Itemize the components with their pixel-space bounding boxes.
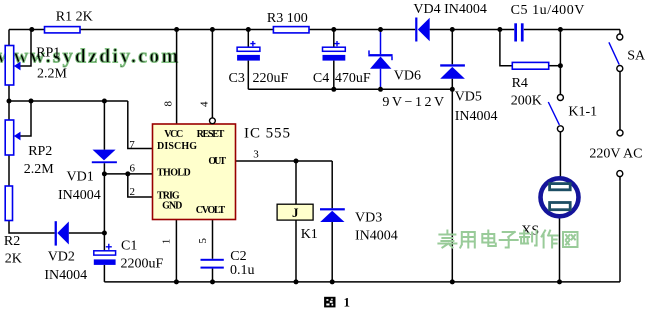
- node VD3 / bottom rail: [330, 279, 335, 284]
- diode VD1: [92, 150, 117, 164]
- svg-text:IN4004: IN4004: [455, 109, 498, 124]
- svg-text:VD6: VD6: [394, 68, 421, 83]
- svg-text:470uF: 470uF: [335, 71, 371, 86]
- svg-text:C5 1u/400V: C5 1u/400V: [511, 3, 585, 18]
- wire VD2 to node: [69, 232, 105, 234]
- node C5 right / top rail: [558, 27, 563, 32]
- svg-text:1: 1: [160, 239, 172, 245]
- svg-text:K1: K1: [301, 227, 318, 242]
- node VD6 / bus: [378, 87, 383, 92]
- watermark chinese right: [438, 231, 577, 248]
- svg-text:GND: GND: [162, 201, 182, 212]
- svg-text:220V AC: 220V AC: [589, 147, 642, 162]
- node C4 / top rail: [331, 27, 336, 32]
- wire RP2 wiper: [20, 101, 32, 136]
- svg-text:0.1u: 0.1u: [230, 263, 255, 278]
- node OUT / relay coil: [294, 159, 299, 164]
- node VD1 cathode / pin6: [102, 171, 107, 176]
- node VD1 / mid wire: [102, 99, 107, 104]
- terminal 220V AC bottom: [617, 171, 623, 177]
- zener VD6: [369, 31, 392, 89]
- wire K1 coil column: [295, 161, 297, 204]
- node pin6 / pin2 branch: [125, 171, 130, 176]
- wire left rail: [8, 30, 10, 46]
- wire R4 right: [549, 65, 561, 67]
- svg-text:K1-1: K1-1: [568, 105, 597, 120]
- potentiometer RP2: [5, 120, 14, 155]
- svg-text:SA: SA: [627, 49, 646, 64]
- node VD2 / C1: [102, 231, 107, 236]
- svg-text:200K: 200K: [511, 94, 542, 109]
- diode VD2: [55, 221, 69, 245]
- svg-text:C1: C1: [121, 239, 137, 254]
- wire VD3 column: [331, 161, 333, 208]
- wire top rail: [9, 29, 45, 31]
- char yong: [460, 232, 475, 248]
- node RP2 wiper / mid wire: [29, 99, 34, 104]
- wire mid bus y89: [248, 88, 452, 90]
- resistor R3: [273, 27, 309, 33]
- char dian: [482, 231, 496, 247]
- switch K1-1: [557, 95, 563, 101]
- resistor R2: [5, 186, 12, 221]
- svg-text:C4: C4: [313, 71, 329, 86]
- svg-text:2: 2: [130, 186, 136, 198]
- svg-text:220uF: 220uF: [253, 71, 289, 86]
- switch SA: [617, 34, 623, 40]
- potentiometer RP1: [5, 46, 14, 86]
- wire pin5: [212, 220, 214, 259]
- char zi: [500, 232, 518, 248]
- svg-text:R1 2K: R1 2K: [56, 9, 93, 24]
- svg-text:5: 5: [197, 238, 209, 244]
- wire bottom rail: [104, 281, 620, 283]
- wire pin7 branch: [128, 101, 153, 149]
- svg-text:IN4004: IN4004: [58, 188, 101, 203]
- wire pin8: [176, 30, 178, 125]
- char shi: [438, 231, 456, 248]
- relay coil J K1: [277, 204, 313, 220]
- svg-text:VD4 IN4004: VD4 IN4004: [413, 2, 487, 17]
- node VD5 / bottom rail: [450, 279, 455, 284]
- wire right rail SA: [619, 30, 621, 35]
- resistor R4: [512, 62, 548, 69]
- capacitor C5: [514, 23, 523, 41]
- svg-text:THOLD: THOLD: [157, 167, 191, 178]
- node VD6 / top rail: [378, 27, 383, 32]
- node relay coil / bottom rail: [294, 279, 299, 284]
- op IC 555: [153, 124, 236, 220]
- resistor R1: [45, 27, 81, 33]
- svg-text:RP1: RP1: [36, 45, 60, 60]
- diode VD4: [415, 18, 430, 42]
- svg-text:J: J: [292, 205, 299, 220]
- svg-text:R4: R4: [512, 76, 528, 91]
- capacitor C2: [201, 259, 224, 269]
- node pin8 / top rail: [174, 27, 179, 32]
- wire C5 R4 left branch: [500, 30, 512, 66]
- char zhi: [520, 231, 537, 246]
- node XS / bottom rail: [557, 279, 562, 284]
- svg-text:IN4004: IN4004: [44, 268, 87, 283]
- svg-text:CVOLT: CVOLT: [196, 205, 226, 216]
- svg-text:1: 1: [344, 294, 351, 309]
- svg-text:VD1: VD1: [67, 169, 94, 184]
- node pin4 / top rail: [210, 27, 215, 32]
- wire XS column: [559, 177, 561, 282]
- svg-text:6: 6: [130, 163, 136, 175]
- svg-text:IN4004: IN4004: [355, 229, 398, 244]
- wire RP1 wiper: [20, 30, 32, 67]
- svg-text:VD2: VD2: [48, 250, 75, 265]
- svg-text:3: 3: [253, 149, 259, 161]
- capacitor C4: [323, 41, 346, 61]
- svg-text:RESET: RESET: [197, 129, 225, 140]
- wire C1 bottom: [103, 265, 105, 282]
- svg-text:7: 7: [129, 139, 135, 151]
- node RP1 wiper / top rail: [29, 27, 34, 32]
- svg-text:4: 4: [198, 101, 210, 107]
- node VD5 / top rail: [450, 27, 455, 32]
- caption tu 1: [324, 297, 335, 308]
- wire pin3 out: [236, 160, 333, 162]
- node VD5 / bus: [450, 87, 455, 92]
- node left rail / mid wire: [7, 99, 12, 104]
- diode VD3: [320, 208, 345, 222]
- capacitor C1: [94, 244, 116, 265]
- socket XS: [541, 178, 579, 216]
- svg-text:DISCHG: DISCHG: [157, 141, 197, 152]
- char wang: [563, 232, 578, 247]
- svg-text:2200uF: 2200uF: [121, 257, 164, 272]
- node pin1 / bottom rail: [174, 279, 179, 284]
- pin 4 reset circle: [210, 118, 216, 124]
- svg-text:8: 8: [162, 101, 174, 107]
- svg-text:VD5: VD5: [455, 90, 482, 105]
- svg-text:IC 555: IC 555: [244, 126, 290, 142]
- terminal 220V AC top: [617, 130, 623, 136]
- svg-text:VD3: VD3: [355, 211, 382, 226]
- svg-text:2K: 2K: [5, 251, 22, 266]
- svg-text:2.2M: 2.2M: [24, 162, 55, 177]
- diode VD5: [440, 64, 465, 78]
- svg-text:VCC: VCC: [164, 129, 183, 140]
- wire pin2 branch: [128, 174, 153, 197]
- node C3 / top rail: [246, 27, 251, 32]
- svg-text:C3: C3: [229, 71, 245, 86]
- wire pin4: [211, 30, 213, 118]
- wire C3 column: [247, 30, 249, 48]
- wire pin6: [104, 173, 152, 175]
- node C2 / bottom rail: [210, 279, 215, 284]
- wire VD1 column: [103, 101, 105, 150]
- wire C4 column: [333, 30, 335, 48]
- svg-text:R2: R2: [4, 234, 20, 249]
- svg-text:www.sydzdiy.com: www.sydzdiy.com: [0, 46, 178, 68]
- wire VD5 column: [451, 30, 453, 65]
- node R4 right: [558, 63, 563, 68]
- svg-text:2.2M: 2.2M: [37, 66, 68, 81]
- wire pin1: [175, 220, 177, 282]
- wire right rail bottom: [619, 177, 621, 282]
- svg-text:R3 100: R3 100: [267, 11, 308, 26]
- node C4 / bus: [331, 87, 336, 92]
- svg-text:OUT: OUT: [208, 156, 226, 167]
- capacitor C3: [237, 41, 260, 61]
- wire mid rail y101: [9, 100, 128, 102]
- char zuo: [542, 231, 558, 248]
- svg-text:RP2: RP2: [28, 144, 52, 159]
- svg-text:C2: C2: [230, 249, 246, 264]
- node C5-R4 / top rail: [497, 27, 502, 32]
- wire K1-1 column: [559, 30, 561, 95]
